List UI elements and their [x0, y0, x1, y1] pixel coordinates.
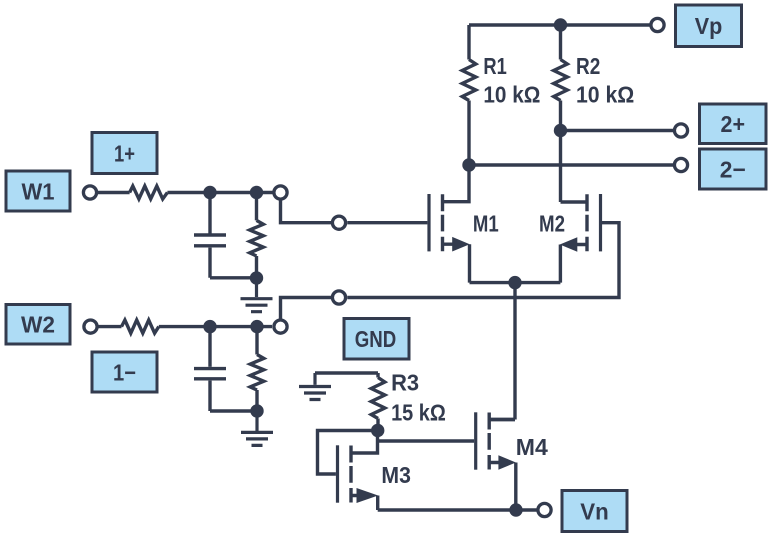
transistor M1: [429, 165, 470, 283]
node Vp rail R2: [554, 18, 567, 31]
terminal W1: [83, 186, 96, 199]
ground G3: [299, 373, 331, 400]
component designator texts: [381, 53, 634, 488]
box W2: [6, 305, 70, 345]
ground G2: [241, 411, 273, 445]
svg-text:M4: M4: [516, 434, 548, 460]
svg-text:10 kΩ: 10 kΩ: [483, 82, 540, 108]
svg-text:Vp: Vp: [695, 13, 723, 39]
terminal M1 gate node: [332, 216, 345, 229]
wire W2 to M2 gate elbow: [281, 298, 332, 321]
capacitor C1: [194, 193, 257, 278]
wire W2 input: [98, 325, 272, 328]
ground G1: [241, 278, 273, 312]
svg-text:GND: GND: [355, 326, 397, 352]
terminal M2 gate node: [332, 291, 345, 304]
resistor R3: [315, 373, 385, 431]
box 2-: [700, 149, 767, 189]
wire 2-: [469, 163, 673, 166]
svg-text:R1: R1: [483, 53, 507, 79]
wire M2 drain vertical: [559, 131, 562, 203]
box Vp: [676, 5, 742, 47]
svg-text:2+: 2+: [721, 111, 746, 137]
open terminal circles: [83, 18, 687, 516]
svg-text:M3: M3: [381, 462, 411, 488]
svg-text:15 kΩ: 15 kΩ: [391, 400, 446, 426]
wire M2 gate run: [347, 223, 619, 298]
svg-text:1+: 1+: [114, 140, 135, 166]
svg-text:W1: W1: [22, 178, 55, 204]
box GND: [344, 319, 409, 360]
wire W1 input: [98, 191, 273, 194]
node 2+ tap: [554, 124, 567, 137]
node R3 M3 M4 gates: [371, 424, 384, 437]
box 2+: [700, 104, 767, 144]
terminal 1+: [274, 186, 287, 199]
svg-text:1−: 1−: [113, 359, 136, 385]
wire M4 gate: [378, 439, 474, 442]
svg-text:M2: M2: [539, 211, 565, 237]
wire bottom rail Vn: [378, 508, 537, 511]
resistor R1: [462, 25, 476, 165]
transistor M4: [476, 412, 516, 510]
wire 2+: [561, 129, 674, 132]
wire source rail M1 M2: [470, 281, 561, 284]
svg-text:R2: R2: [576, 53, 600, 79]
box Vn: [562, 491, 627, 532]
wire top rail Vp: [469, 23, 651, 26]
node 2- M1 drain: [462, 158, 475, 171]
terminal 2+: [674, 124, 687, 137]
transistor M3: [338, 431, 379, 511]
box 1-: [92, 352, 157, 392]
node W1-R shunt: [250, 186, 263, 199]
svg-text:M1: M1: [473, 211, 499, 237]
node W1 network bottom: [250, 271, 263, 284]
svg-text:W2: W2: [21, 312, 55, 338]
terminal 2-: [674, 158, 687, 171]
wire W1 to M1 gate elbow: [281, 199, 332, 223]
svg-text:R3: R3: [391, 370, 419, 396]
resistor R2: [554, 25, 568, 131]
node source rail: [508, 276, 521, 289]
capacitor C2: [194, 327, 257, 411]
box 1+: [92, 133, 157, 174]
resistor W1 series: [130, 186, 168, 199]
wire M3 gate loop: [318, 431, 378, 475]
terminal Vn: [538, 503, 551, 516]
box W1: [6, 171, 70, 211]
junction node dots: [203, 18, 567, 516]
transistor M2: [560, 194, 601, 283]
terminal W2: [84, 320, 97, 333]
wire M1 gate: [347, 221, 427, 224]
terminal 1-: [274, 320, 287, 333]
node W2-R shunt: [250, 320, 263, 333]
node Vn: [509, 503, 522, 516]
resistor W2 series: [122, 320, 159, 333]
svg-text:Vn: Vn: [580, 498, 609, 524]
svg-text:2−: 2−: [720, 156, 746, 182]
node W1-C1: [203, 186, 216, 199]
resistor W1 shunt: [250, 193, 264, 279]
node W2 network bottom: [250, 404, 263, 417]
svg-text:10 kΩ: 10 kΩ: [576, 82, 634, 108]
wire tail node to M4 drain: [489, 283, 515, 420]
resistor W2 shunt: [250, 327, 264, 411]
terminal Vp: [651, 18, 664, 31]
node W2-C2: [203, 320, 216, 333]
